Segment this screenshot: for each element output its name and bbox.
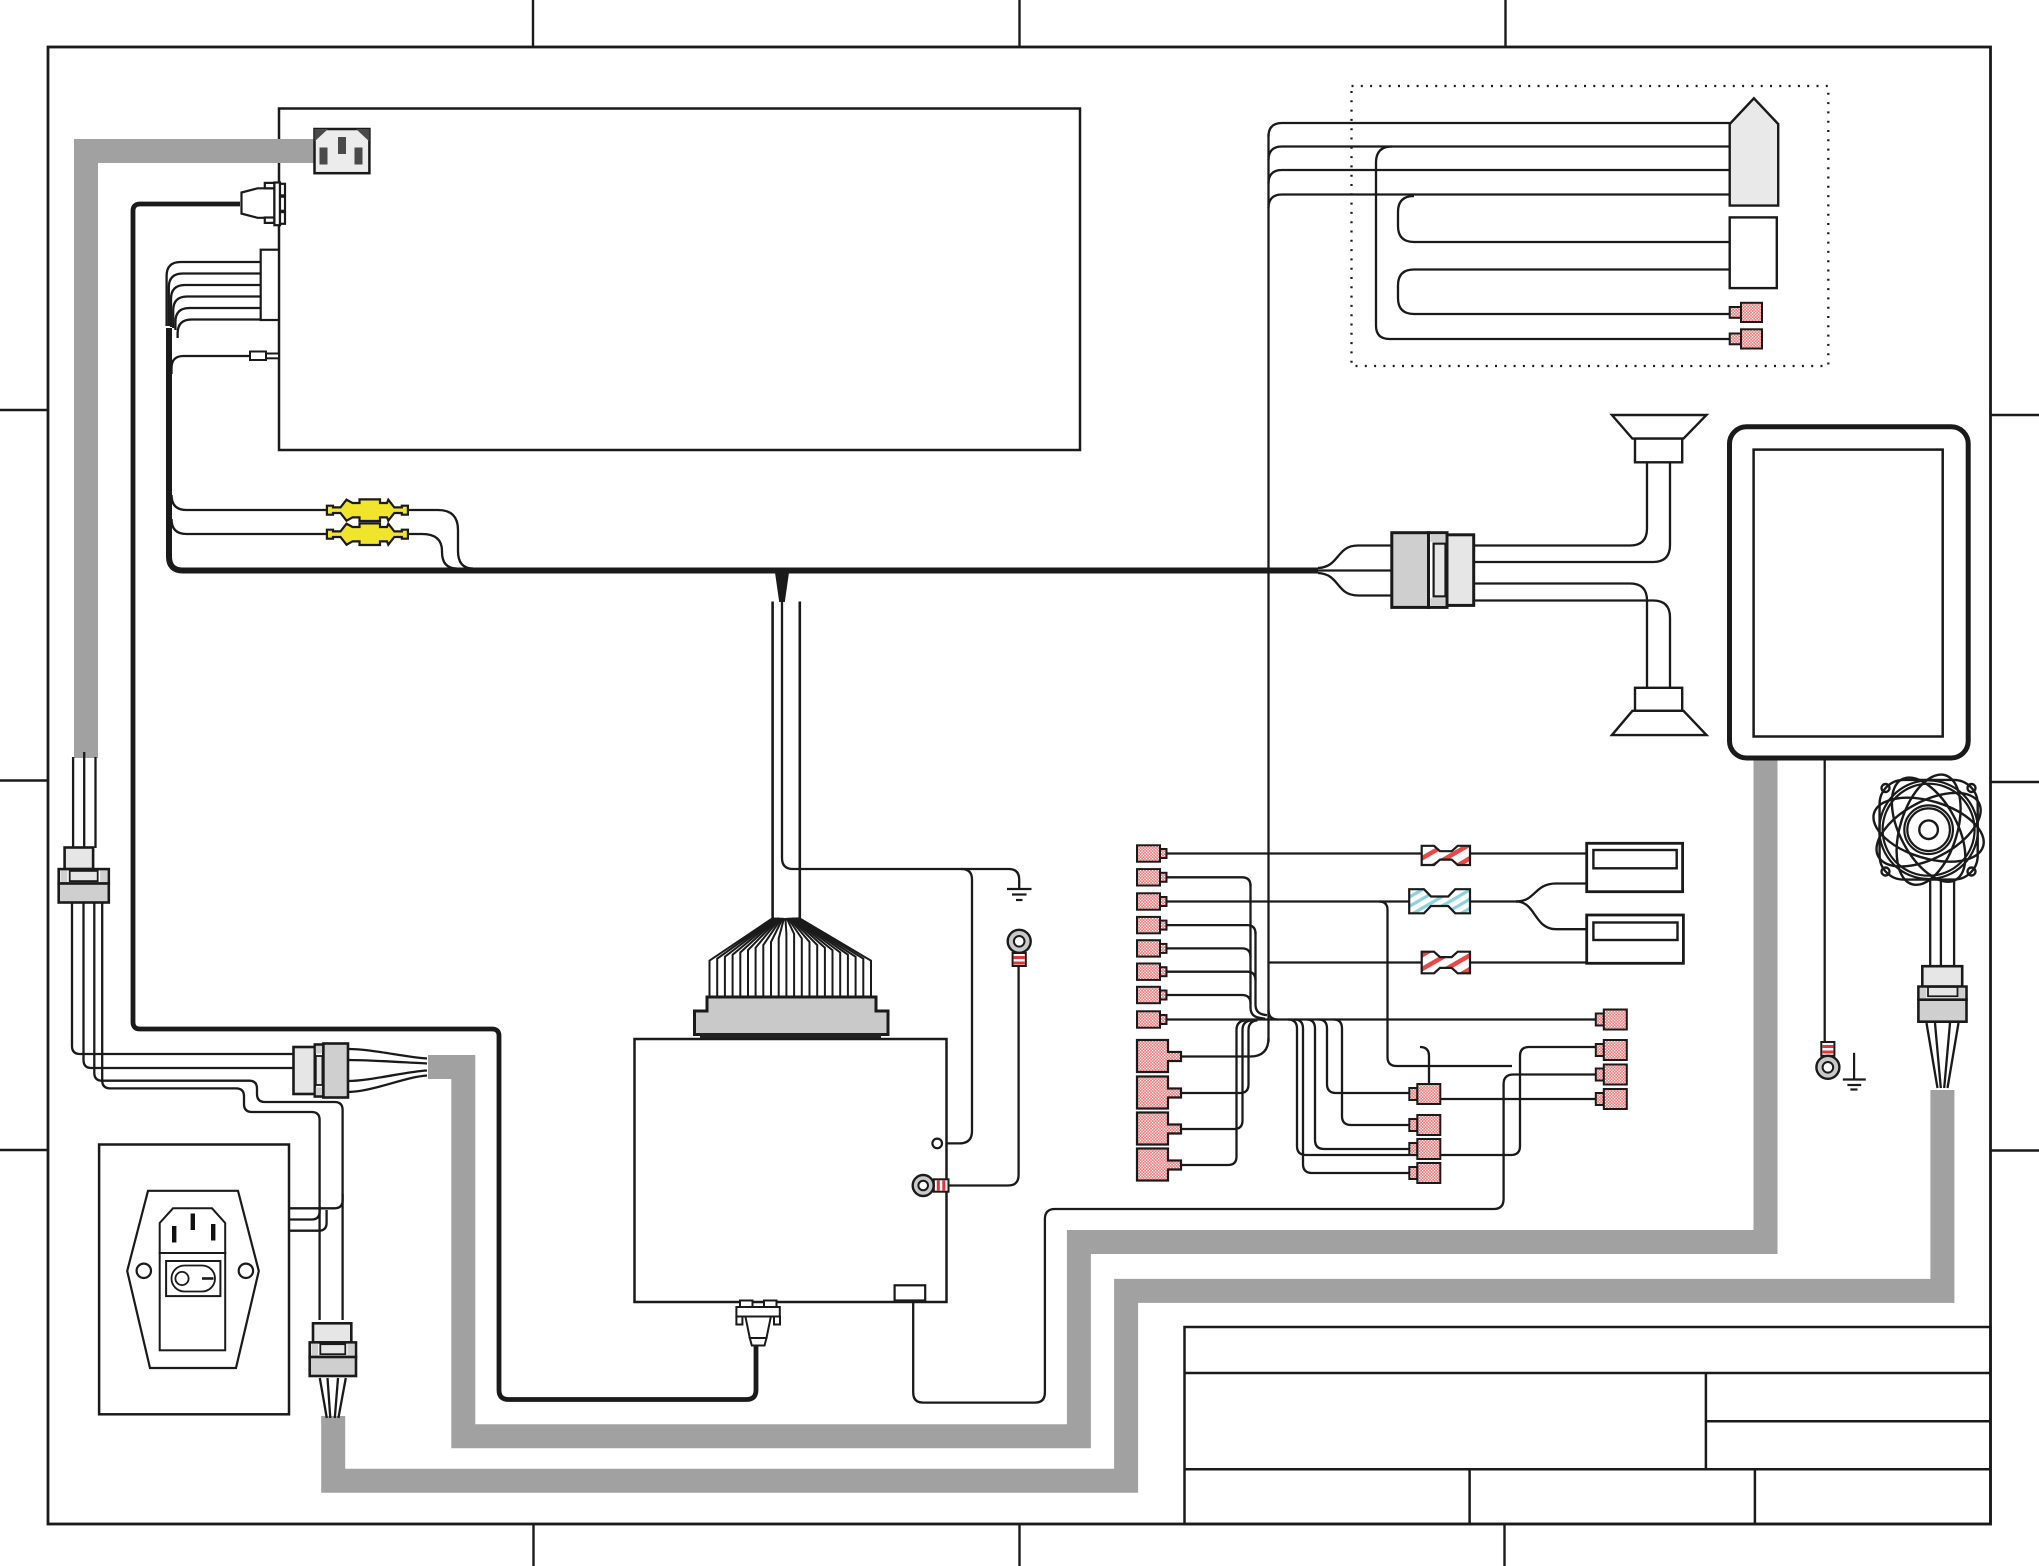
keyed connector (pentagon) (1730, 98, 1779, 205)
bullet terminal R3 (1596, 1065, 1627, 1085)
loom connector (AC harness) (294, 1044, 349, 1098)
jumper loop row4 to white connector (1398, 196, 1730, 242)
white rectangular connector (1730, 217, 1777, 288)
sheathed wire below cord (outline pair + core) (73, 752, 95, 848)
faceplate lower rect (160, 1253, 226, 1350)
spade terminal t3 (1137, 893, 1167, 909)
flag terminal F2 (1137, 1077, 1181, 1109)
fuse row 2 (blue) (1166, 900, 1518, 902)
pink plug 2 (1730, 329, 1762, 348)
tick top 1 (532, 0, 534, 47)
thick video cable from DB9 around left and bottom to PSU DB connector (133, 204, 756, 1400)
terminal wire t7 (1166, 995, 1251, 1004)
feeder to terminal M4 (1295, 1020, 1410, 1174)
speaker harness connector (1392, 533, 1474, 608)
tick top 2 (1018, 0, 1020, 47)
chassis box (top-left large rectangle) (279, 109, 1080, 451)
flag terminal F2 wire (1180, 1020, 1258, 1093)
lamp box 1 (1587, 843, 1683, 891)
fuse F2 (blue) (1409, 889, 1470, 913)
strain relief connector on power cord (59, 848, 109, 903)
tick right 1 (1991, 414, 2039, 416)
spade terminal t1 (1137, 845, 1167, 861)
AC wire B from strain relief (84, 901, 294, 1068)
PSU box (635, 1039, 947, 1302)
inlet prongs (172, 1214, 215, 1243)
flag terminal F1 (1137, 1040, 1181, 1072)
tube left edge (771, 602, 774, 919)
tick bottom 2 (1018, 1524, 1020, 1566)
RCA plug 2 (327, 523, 408, 545)
blue fuse Y lower branch (1516, 902, 1587, 930)
fuse F3 (1422, 952, 1470, 974)
ground symbol (right) (1843, 1053, 1866, 1090)
bullet terminal R1 (1596, 1010, 1627, 1030)
switched line wire 2 (289, 1206, 320, 1220)
AC plug funnel lines (320, 1378, 346, 1418)
inlet plate (160, 1208, 226, 1253)
chassis 6-pin connector (261, 250, 279, 320)
AC plug to fan loom (310, 1323, 356, 1376)
gray harness cable: loom connector to monitor (428, 757, 1766, 1436)
spade terminal t4 (1137, 917, 1167, 933)
tick bottom 3 (1503, 1524, 1505, 1566)
title block (1185, 1327, 1991, 1524)
tick right 3 (1991, 1149, 2039, 1151)
bullet terminal R2 (1596, 1040, 1627, 1060)
AC wire A from strain relief (72, 901, 294, 1054)
harness row 3 to keyed connector (1269, 170, 1730, 184)
thick harness bundle wire (chassis to speaker connector) (169, 328, 1318, 571)
chassis ground symbol (center) (1007, 889, 1032, 900)
blue fuse Y upper branch (1516, 884, 1587, 902)
spade terminal t2 (1137, 869, 1167, 885)
bullet terminal M3 (1409, 1139, 1440, 1159)
fan connector (1918, 966, 1966, 1022)
speaker SP2 (1612, 688, 1707, 735)
audio wire left channel through RCA (172, 495, 474, 569)
harness fan-out cone into PSU connector (710, 918, 872, 998)
speaker trident wire bottom (1318, 573, 1392, 596)
branch bus to R1 row (1269, 1010, 1279, 1020)
terminal row t8 to terminal R1 (1166, 1018, 1596, 1020)
harness row 4 to keyed connector (1269, 195, 1730, 209)
flag terminal F3 (1137, 1113, 1181, 1145)
RCA plug 1 (327, 499, 408, 521)
wire chassis connector pin 3 (171, 285, 261, 327)
sense wire inside tube to chassis ground (782, 602, 1019, 888)
harness row 2 to keyed connector (1269, 147, 1730, 161)
gray power cord to AC inlet (86, 151, 314, 758)
fuse row 1 (1166, 852, 1587, 854)
AC inlet connector on chassis (315, 129, 370, 173)
speaker trident wire middle (1318, 569, 1392, 571)
spade terminal t6 (1137, 964, 1167, 980)
wire chassis connector pin 6 (178, 320, 261, 339)
feeder to terminal M2 (1334, 1020, 1410, 1126)
fan lead wires (1930, 880, 1954, 967)
rocker switch S1 (166, 1261, 220, 1296)
monitor ground wire down to ring lug (1824, 757, 1826, 1041)
monitor ground ring lug (1816, 1042, 1839, 1079)
fan (1865, 766, 1992, 893)
power entry faceplate (127, 1191, 259, 1368)
feeder to terminal M3 (1307, 1020, 1410, 1150)
bullet terminal M1 (1409, 1084, 1440, 1104)
harness row 1 to keyed connector (1269, 123, 1730, 137)
branch wire down from blue row (1379, 902, 1512, 1067)
tick top 3 (1504, 0, 1506, 47)
bullet terminal M4 (1409, 1163, 1440, 1183)
speaker trident wire top (1318, 546, 1392, 569)
spade terminal t8 (1137, 1011, 1167, 1027)
dotted accessory box (1352, 86, 1829, 366)
wire small chassis plug (172, 356, 251, 374)
wire chassis connector pin 5 (175, 308, 260, 330)
spade terminal t5 (1137, 940, 1167, 956)
gray harness cable: AC plug to fan (333, 1090, 1942, 1481)
monitor (1730, 427, 1969, 758)
flag terminal F1 wire (1180, 1038, 1269, 1057)
lamp box 2 (1587, 915, 1684, 963)
wire to pink plug 2 (1376, 147, 1730, 340)
tick left 2 (0, 779, 48, 781)
fuse row 3 (1269, 961, 1587, 963)
PSU ring terminal (913, 1175, 949, 1196)
fuse F1 (1422, 846, 1470, 865)
PSU aux wire to terminal R3 (913, 1075, 1596, 1403)
tube right edge (798, 602, 801, 919)
small chassis plug (250, 352, 279, 361)
faceplate screws (137, 1264, 151, 1278)
snake wire to terminal R2 (1288, 1020, 1596, 1156)
AC wire D routed under loom connector (102, 901, 319, 1320)
terminal wire t5 (1166, 948, 1251, 957)
bullet terminal M2 (1409, 1115, 1440, 1135)
speaker 1 wire b (1474, 462, 1670, 562)
power entry module box (99, 1145, 289, 1415)
AC wire C routed under loom connector (94, 901, 342, 1320)
harness bus vertical (1267, 134, 1269, 1042)
merge vertical b (1256, 932, 1268, 1015)
loom funnel lines (348, 1049, 427, 1092)
wire chassis connector pin 1 (167, 262, 261, 326)
PSU sense test point (932, 1139, 942, 1149)
feeder to terminal M1 (1319, 1020, 1410, 1094)
terminal wire t6 (1166, 972, 1256, 981)
merge vertical a (1251, 884, 1266, 1019)
pink plug 1 (1730, 303, 1762, 322)
speaker 1 wire a (1474, 462, 1647, 545)
jumper loop white connector to pink plug 1 (1398, 270, 1730, 315)
tick bottom 1 (532, 1524, 534, 1566)
bullet terminal R4 (1596, 1089, 1627, 1109)
tick right 2 (1991, 781, 2039, 783)
sense wire branch to PSU test point (943, 869, 973, 1143)
terminal wire t2 (1166, 877, 1251, 886)
PSU ring terminal wire to ground lug (949, 966, 1019, 1186)
tick left 3 (0, 1149, 48, 1151)
flag terminal F4 (1137, 1149, 1181, 1181)
DB9 video connector on chassis (242, 183, 286, 226)
wire chassis connector pin 2 (169, 274, 261, 327)
switched line wire 3 (289, 1210, 327, 1231)
junction drop into tube (775, 569, 790, 602)
flag terminal F3 wire (1180, 1020, 1252, 1129)
ground ring lug (center) (1008, 930, 1031, 966)
PSU edge connector (695, 997, 889, 1039)
speaker SP1 (1612, 415, 1707, 462)
tick left 1 (0, 409, 48, 411)
speaker 2 wire a (1474, 584, 1647, 688)
PSU aux notch (895, 1285, 926, 1300)
PSU DB connector (736, 1301, 780, 1346)
spade terminal t7 (1137, 987, 1167, 1003)
video cable tube (white sheath) (774, 602, 798, 918)
speaker 2 wire b (1474, 601, 1670, 688)
switched line wire 1 (289, 1194, 343, 1208)
terminal wire t4 (1166, 925, 1256, 934)
fan plug funnel lines (1927, 1023, 1959, 1088)
flag terminal F4 wire (1180, 1020, 1246, 1165)
branch to terminal R4 (1420, 1047, 1596, 1099)
audio wire right channel through RCA (172, 519, 458, 569)
wire chassis connector pin 4 (173, 297, 261, 329)
